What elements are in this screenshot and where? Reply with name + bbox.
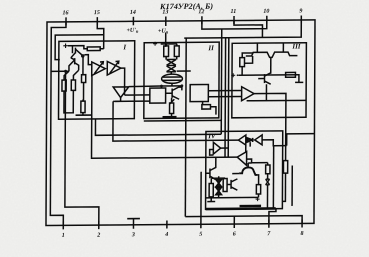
svg-text:2: 2	[96, 233, 100, 239]
ground bar at pin 3	[127, 218, 140, 220]
block IV box	[206, 131, 283, 209]
control rail wire	[238, 74, 298, 76]
wire R8 bottom	[171, 114, 173, 119]
pin 6 tick	[233, 216, 235, 228]
svg-text:8: 8	[301, 231, 304, 237]
svg-text:4: 4	[164, 232, 168, 238]
svg-text:10: 10	[263, 9, 269, 15]
wire row1 out right	[262, 140, 287, 146]
pin 14 tick	[132, 17, 134, 26]
resistor R4 vertical	[81, 75, 85, 83]
pin 12 tick	[201, 16, 203, 24]
wire supply to border right	[287, 134, 315, 146]
resistor R11 horizontal	[286, 72, 296, 77]
transistor T2	[69, 58, 79, 71]
wire pin12 to pin10	[202, 20, 267, 29]
transistor T3 block II	[166, 87, 182, 99]
wire row1 base down to row3 base	[245, 145, 247, 152]
ground bar block III	[295, 81, 303, 83]
wire L1 to block IV	[95, 118, 221, 135]
junction blob	[81, 54, 85, 58]
pin 10 tick	[266, 16, 268, 24]
double diode stack	[216, 176, 222, 198]
right column resistor R16	[266, 165, 270, 174]
wire ellipse bottom tick	[171, 83, 173, 86]
wire under ellipse	[161, 85, 181, 87]
wire resistor to pin15 drop	[100, 48, 104, 50]
wire cluster right to rail	[177, 70, 191, 72]
thick bar under R8	[163, 116, 177, 118]
wire R2 top	[64, 71, 69, 80]
ellipse chords	[163, 76, 182, 78]
left box phase shifter	[150, 88, 166, 103]
ground bar block I	[76, 114, 92, 116]
pin 2 tick	[98, 221, 100, 229]
transistor Q2 left	[206, 167, 216, 179]
pin 13 tick	[165, 17, 167, 27]
transistor T1	[71, 48, 82, 58]
wire gap vertical Vb	[220, 29, 223, 134]
svg-text:+U'п: +U'п	[126, 28, 138, 34]
wire R7 stub bottom	[176, 56, 178, 59]
ground bar Q2	[207, 201, 215, 203]
wire pin15 step	[97, 21, 104, 49]
svg-text:9: 9	[299, 8, 302, 14]
resistor R1 horizontal	[87, 47, 100, 51]
resistor R7 vertical	[174, 46, 179, 57]
row1 left triangle	[238, 135, 245, 145]
block IV bottom bold edge	[206, 207, 276, 210]
svg-text:III: III	[291, 42, 300, 50]
right column verticals	[267, 163, 269, 165]
transistor pair bathtub	[246, 52, 298, 58]
bold sub-band	[240, 205, 261, 208]
multiplier ellipse	[162, 74, 183, 83]
junction dot right	[180, 84, 183, 87]
wire supply branch left	[55, 35, 104, 60]
wire input to T2	[66, 70, 69, 72]
wire pin11 step	[234, 20, 263, 38]
wire dot into left box	[160, 86, 162, 88]
pin 4 tick	[166, 221, 168, 229]
resistor R14 vertical	[256, 185, 260, 194]
wire T6 down	[265, 84, 267, 100]
pin 3 tick	[132, 219, 134, 229]
right box	[190, 85, 208, 102]
svg-text:IV: IV	[207, 132, 217, 140]
block II box	[144, 42, 219, 118]
wire dot down right	[181, 86, 183, 91]
resistor R10 vertical	[240, 58, 245, 67]
collector riser left	[256, 43, 258, 52]
wire pin13 into block II	[165, 33, 167, 47]
wire cluster to ellipse	[170, 72, 172, 74]
inner box line right	[272, 146, 274, 209]
wire R7 stub top	[176, 44, 178, 46]
pin 1 tick	[62, 221, 64, 229]
wire gap vertical Vc	[227, 38, 230, 157]
junction dot left	[160, 85, 163, 88]
wire pin9 long left	[184, 19, 301, 38]
wire R11 right down	[295, 75, 299, 83]
wire R9 right	[210, 107, 216, 115]
wire gap vertical Va	[224, 38, 227, 157]
wire out pair upper	[208, 90, 241, 92]
arrow on R8	[170, 99, 174, 104]
wire pin5 vertical	[200, 172, 202, 217]
wire below amp	[247, 99, 306, 101]
svg-text:3: 3	[131, 232, 135, 238]
plus mark block II	[153, 42, 157, 46]
wire down-triangle out	[113, 98, 121, 102]
wire R4 to R5	[82, 83, 85, 102]
wire R8 top	[171, 98, 173, 103]
wire columns top rail	[211, 177, 225, 179]
transistor Q3	[227, 179, 237, 190]
wire drop to T2 collector	[71, 46, 73, 54]
wire plus node to resistor	[68, 46, 87, 49]
wire R12 gnd	[210, 197, 212, 202]
transistor T6	[258, 73, 271, 85]
wire R10 bottom to control rail	[241, 67, 243, 76]
wire row2 input stub	[210, 149, 214, 155]
wire R15 down into box	[282, 173, 285, 201]
svg-text:+Uп: +Uп	[158, 29, 169, 35]
wire blob down to R4	[82, 56, 84, 75]
svg-text:13: 13	[162, 10, 168, 16]
svg-text:5: 5	[199, 232, 202, 238]
wire H1 to block II	[125, 94, 150, 96]
wire right box to R9	[202, 102, 204, 105]
resistor R6 vertical	[164, 46, 169, 57]
wire Q1 to R14	[258, 175, 259, 185]
wire triangle B to down-triangle	[121, 68, 125, 95]
input stub into block I	[51, 70, 66, 72]
IC outer border	[46, 20, 315, 226]
wire down-triangle corner to left box	[129, 85, 162, 88]
svg-text:14: 14	[130, 10, 136, 16]
pin 16 tick	[65, 17, 67, 25]
svg-text:1: 1	[62, 233, 65, 239]
output transistor Q1 hump	[232, 163, 257, 175]
resistor R15 in output line	[283, 161, 287, 174]
collector riser right	[282, 43, 284, 52]
resistor R8 vertical	[170, 103, 174, 114]
svg-text:6: 6	[233, 231, 236, 237]
pin 15 tick	[96, 17, 98, 25]
wire R12	[210, 178, 212, 183]
wire Q2 collector up to L2	[215, 157, 217, 168]
pin 7 tick	[268, 220, 270, 228]
L-wire left pair	[245, 56, 253, 63]
wire T1 to triangle A	[84, 55, 92, 65]
plus mark block I	[63, 43, 68, 48]
wire block III output down	[254, 93, 286, 160]
pin 11 tick	[233, 16, 235, 24]
block I box	[59, 41, 135, 119]
wire row3 base out	[247, 159, 268, 163]
limiter triangle B	[107, 61, 121, 75]
wire R6 stub bottom	[165, 57, 167, 60]
resistor R2 vertical	[62, 80, 66, 91]
pin 9 tick	[300, 15, 302, 23]
wire L1b to row1 triangle	[113, 100, 239, 141]
tick below row1 diode	[249, 142, 251, 147]
diode X upper	[167, 59, 176, 65]
down triangle detector driver	[113, 87, 129, 98]
resistor R3 vertical	[71, 80, 75, 90]
pin 8 tick	[301, 219, 303, 227]
wire center long vertical x186	[184, 38, 187, 217]
svg-text:16: 16	[63, 10, 69, 16]
op-amp triangle block III	[242, 87, 254, 101]
limiter triangle A	[92, 62, 106, 76]
plus dot volume control input	[231, 73, 238, 77]
wire R2 R3 bottoms	[64, 90, 73, 112]
wire L2 to row2 triangle	[92, 74, 238, 158]
wire R10 top	[242, 53, 253, 58]
wire resistor tops supply	[161, 43, 178, 45]
wire pin7 step	[269, 208, 276, 223]
row1 right triangle	[255, 135, 262, 145]
resistor R13 vertical	[223, 179, 227, 192]
emitter join down	[270, 57, 272, 73]
wire block II bottom parallel	[144, 119, 222, 122]
wire R14 bottom	[258, 194, 260, 197]
svg-text:11: 11	[231, 9, 237, 15]
wire pin16 to pin1 left rail	[50, 22, 66, 226]
svg-text:II: II	[207, 44, 214, 52]
resistor R12 vertical	[209, 183, 213, 196]
svg-text:12: 12	[198, 9, 204, 15]
row1 diode	[247, 138, 253, 142]
wire pin8 bottom rail	[185, 216, 302, 225]
wire bottom gnd rail	[206, 196, 259, 198]
wire R5 bottom to ground	[82, 113, 84, 116]
wire out pair lower	[208, 95, 241, 97]
resistor R5 vertical	[81, 101, 85, 113]
svg-text:I: I	[122, 43, 126, 51]
row2 triangle	[213, 142, 220, 154]
pin 5 tick	[200, 216, 202, 228]
resistor R9 horizontal	[202, 105, 211, 109]
diode X lower	[167, 66, 176, 72]
wire right margin vertical	[291, 166, 293, 206]
row3 triangle	[237, 152, 246, 166]
svg-text:15: 15	[94, 10, 100, 16]
wire H2 to block II	[115, 100, 150, 102]
wire R6 stub top	[165, 44, 167, 46]
right column diode X	[266, 179, 270, 185]
wire R3 top	[73, 70, 78, 80]
block III box	[232, 43, 307, 118]
wire pin2 input rail	[65, 71, 100, 225]
wire row2 out	[221, 147, 229, 149]
junction dot input	[64, 70, 67, 73]
plus mark R14	[256, 197, 260, 201]
